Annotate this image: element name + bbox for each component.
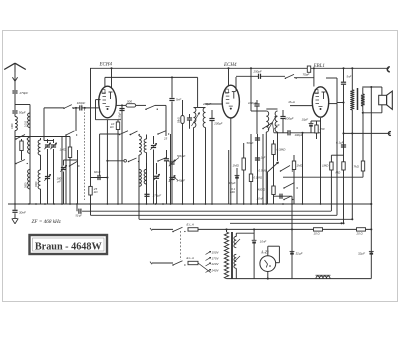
shield box V1 [95, 100, 97, 120]
band switch S1b [15, 163, 17, 165]
svg-text:Braun - 4648W: Braun - 4648W [35, 241, 103, 252]
wire OT primary bottom [351, 110, 353, 219]
svg-text:32µF: 32µF [358, 252, 365, 256]
switch S3c [157, 133, 159, 135]
svg-text:7kΩ: 7kΩ [354, 164, 360, 168]
svg-text:400 Ω: 400 Ω [258, 188, 267, 192]
capacitor 100uF tone [274, 132, 288, 134]
svg-text:100µF: 100µF [295, 133, 303, 137]
transformer secondary HT [234, 236, 236, 247]
transformer primary [224, 232, 228, 279]
svg-text:µF: µF [276, 123, 280, 127]
capacitor 1nF [255, 157, 260, 159]
switch S7b [283, 199, 285, 201]
svg-text:MΩ: MΩ [230, 190, 235, 194]
wire secondary top [235, 233, 237, 236]
svg-text:200pF: 200pF [284, 117, 294, 121]
node [84, 107, 86, 109]
wire V2 top lead [228, 68, 230, 86]
switch link dashed [180, 231, 182, 260]
AVC bus [139, 218, 352, 220]
svg-text:150: 150 [320, 127, 325, 131]
fuse E.L.A 2 [188, 261, 198, 264]
band switch S1c [69, 165, 71, 167]
svg-text:pF: pF [57, 180, 62, 184]
capacitor 5nF [171, 76, 173, 78]
svg-text:100pF: 100pF [119, 112, 122, 119]
svg-text:10nF: 10nF [257, 197, 264, 201]
ground cap 30nF [14, 204, 16, 210]
wire rail audio [302, 133, 304, 204]
heater bus 2 [90, 204, 92, 215]
IF transformer T4 secondary [275, 111, 277, 132]
wire osc feedback [165, 105, 167, 136]
svg-text:0.010: 0.010 [25, 120, 28, 127]
EBL1 cathode [320, 118, 322, 204]
svg-text:100pF: 100pF [248, 101, 257, 105]
band switch S1a [15, 138, 17, 140]
resistor 0.3M [273, 140, 275, 204]
wire heater lead [235, 268, 237, 278]
capacitor 100pF grid [121, 105, 123, 204]
switch tone S5 [262, 128, 264, 130]
osc coil T1a [138, 135, 140, 137]
wire link antenna to L2 [15, 104, 30, 106]
capacitor 10uF cathode [311, 120, 321, 122]
wire top of switch block [15, 136, 70, 138]
resistor 25k [89, 186, 92, 195]
wire rail [228, 150, 230, 204]
wire V2 anode [235, 77, 237, 91]
svg-text:30nF: 30nF [19, 210, 26, 214]
resistor 400 [272, 186, 275, 195]
wire grid line V1 [44, 107, 64, 109]
phono terminal [107, 160, 123, 162]
wire phono terminal line [342, 132, 344, 134]
wire T4 top lead [250, 68, 252, 111]
svg-text:200pF: 200pF [213, 122, 222, 126]
svg-text:10µF: 10µF [302, 117, 309, 121]
resistor 1M feedback a [330, 155, 332, 211]
EBL1 right connection box [336, 78, 338, 104]
svg-text:0.3MΩ: 0.3MΩ [277, 148, 287, 152]
wire rail [291, 196, 293, 204]
wire rail [262, 134, 264, 204]
speaker field coil [316, 276, 330, 279]
voltage taps [206, 251, 211, 254]
tuning arrow T4 [268, 116, 276, 130]
connector output terminal [387, 67, 390, 72]
svg-text:50kpF: 50kpF [177, 154, 186, 158]
volume potentiometer [267, 162, 279, 173]
antenna [4, 63, 15, 69]
svg-text:0000: 0000 [35, 181, 38, 187]
trimmer C11 140pF [154, 175, 159, 177]
svg-text:240V: 240V [211, 269, 220, 273]
resistor 500 oscillator [117, 104, 127, 106]
mains lead L [152, 228, 173, 230]
mains switch S8a [172, 231, 174, 233]
trimmer C7 [53, 139, 55, 143]
svg-text:MΩ: MΩ [336, 171, 341, 175]
svg-text:50nF: 50nF [247, 141, 254, 145]
coil L4 [28, 170, 30, 190]
capacitor 100pF series [79, 105, 81, 110]
resistor 150 cathode [315, 125, 318, 133]
output transformer primary [350, 90, 354, 110]
resistor MOhm feedback b [342, 162, 345, 170]
svg-text:ZF = 468 kHz: ZF = 468 kHz [32, 218, 61, 225]
trimmer C10 [151, 145, 156, 147]
tuning arrow T3 [192, 113, 200, 127]
wire antenna lead [14, 72, 16, 90]
ground earth [12, 219, 15, 224]
svg-text:50 µF: 50 µF [76, 215, 83, 218]
svg-text:250pF: 250pF [253, 69, 262, 73]
switch S6 [280, 170, 282, 172]
svg-text:20 Ω: 20 Ω [356, 231, 364, 235]
wire speaker return [370, 87, 372, 229]
svg-text:150V: 150V [212, 251, 220, 255]
capacitor 175pF [144, 193, 149, 195]
svg-text:220V: 220V [211, 262, 220, 266]
capacitor 50nF [257, 134, 259, 204]
wire OT primary top [351, 68, 353, 90]
capacitor 100pF T4 [254, 103, 259, 105]
svg-text:500: 500 [127, 100, 132, 104]
osc coil T2a [138, 160, 140, 169]
svg-text:ECH4: ECH4 [99, 63, 113, 68]
trimmer padder 1 [169, 161, 174, 163]
capacitor 32uF first [290, 250, 295, 252]
wire input column [29, 105, 31, 205]
IF transformer T4 primary [266, 111, 268, 132]
transformer secondary heater [234, 254, 236, 268]
switch S3d [128, 161, 130, 163]
tube V2 ECH4 [222, 85, 239, 118]
tube V1 ECH4 [99, 86, 117, 118]
resistor 1k [21, 139, 23, 141]
wire far right rail [370, 229, 372, 278]
rectifier feed [253, 228, 255, 230]
rectifier tube A-Z1 [260, 256, 276, 272]
svg-text:10nF: 10nF [260, 240, 267, 244]
switch osc [145, 108, 147, 110]
wire B+ top bus [90, 67, 389, 69]
rectifier anode hook [268, 245, 280, 247]
node [75, 107, 77, 109]
resistor 20 ohm [357, 228, 366, 231]
tube V3 EBL1 [312, 87, 328, 117]
wire g2 [290, 105, 312, 107]
svg-text:50kΩ: 50kΩ [178, 117, 181, 123]
wire AVC return [75, 108, 77, 131]
node [351, 67, 353, 69]
capacitor 33uF [236, 168, 238, 204]
capacitor 60nF AVC [91, 177, 108, 179]
model box Braun 4648W [30, 235, 108, 254]
trimmer C8 180pF [61, 167, 66, 169]
mains switch S8b [172, 264, 174, 266]
switch S2 [63, 108, 65, 110]
svg-text:100pF: 100pF [77, 101, 86, 105]
mains line to PSU [198, 228, 371, 230]
transformer core [231, 232, 233, 279]
resistor grid stopper [307, 66, 310, 72]
svg-text:25: 25 [163, 137, 168, 141]
capacitor 50pF [12, 110, 17, 112]
B+ rail [291, 204, 293, 279]
capacitor 200pF T3 sec [209, 118, 214, 120]
osc coil T2b [146, 163, 148, 169]
IF transformer T3 secondary [203, 108, 205, 128]
IF transformer T3 primary [194, 108, 196, 128]
wire left B+ drop [90, 68, 92, 204]
wire grid to V2 [206, 103, 223, 105]
capacitor 10nF [274, 195, 293, 197]
resistor feedback c [362, 111, 364, 161]
osc coil T1b [146, 135, 148, 140]
svg-text:ECH4: ECH4 [223, 63, 237, 68]
wire V2 cathode [230, 118, 232, 204]
svg-text:175µF: 175µF [153, 194, 162, 198]
mains lead N [152, 262, 173, 264]
svg-text:70pF: 70pF [303, 73, 310, 77]
coupling capacitor 250pF [258, 74, 260, 79]
wire [14, 131, 16, 205]
switch S7 [283, 187, 285, 189]
wire EBL1 grid top [313, 68, 315, 86]
svg-text:175V: 175V [212, 257, 220, 261]
heater bus 1 [76, 204, 78, 211]
switch S3b [130, 134, 132, 136]
bus line [230, 222, 342, 224]
svg-text:10 Ω: 10 Ω [314, 231, 321, 235]
trimmer C7b [45, 176, 50, 178]
svg-text:M+Δ: M+Δ [289, 100, 295, 104]
svg-text:0000: 0000 [25, 182, 28, 188]
coil L2 [28, 113, 30, 128]
svg-text:1MΩ: 1MΩ [233, 164, 240, 168]
speaker [379, 95, 387, 105]
output transformer core [357, 88, 359, 110]
switch S3a [119, 134, 121, 136]
svg-text:32µF: 32µF [296, 252, 303, 256]
rectifier bottom lead [267, 272, 269, 279]
resistor 50k [182, 100, 184, 116]
resistor 0.1M [250, 134, 252, 204]
capacitor 0.1uF tone chain [341, 144, 346, 146]
wire feedback line [283, 176, 363, 178]
voltage selector wire [198, 263, 211, 273]
svg-text:1MΩ: 1MΩ [322, 164, 329, 168]
speaker frame [362, 86, 382, 88]
capacitor 200pF T4 [280, 116, 285, 118]
svg-text:60nF: 60nF [94, 170, 101, 174]
coil antenna L1 [14, 114, 16, 117]
ground bus [8, 203, 371, 205]
trimmer padder 2 [169, 177, 174, 179]
output transformer secondary [361, 94, 365, 106]
resistor 1M b [293, 155, 295, 204]
node [313, 67, 315, 69]
svg-text:0.1MΩ: 0.1MΩ [254, 176, 263, 180]
capacitor 5nF tone [343, 68, 345, 82]
resistor 10 ohm [314, 228, 323, 231]
svg-text:E.L.A: E.L.A [187, 256, 194, 260]
wire rail [170, 134, 172, 204]
capacitor [164, 158, 169, 160]
wire screen drop [197, 77, 199, 107]
coil L3 [28, 137, 30, 154]
trimmer C6 [47, 139, 49, 143]
switch S4 [285, 77, 287, 79]
wire cathode rail V1 [106, 120, 108, 205]
svg-text:5nF: 5nF [347, 75, 352, 79]
capacitor 10nF rectifier [252, 239, 257, 241]
coil L5 [40, 138, 42, 140]
svg-text:E.L.A: E.L.A [187, 223, 194, 227]
node [342, 67, 344, 69]
fuse E.L.A 1 [188, 228, 198, 231]
cathode resistor 10k [117, 120, 119, 204]
svg-text:33µF: 33µF [229, 181, 236, 185]
svg-text:270pF: 270pF [19, 91, 29, 95]
svg-text:50pF: 50pF [19, 111, 26, 115]
svg-text:5nF: 5nF [176, 98, 181, 102]
wire switch row 1 [100, 133, 120, 135]
capacitor 270pF [12, 90, 17, 92]
tuning gang link dashed [84, 109, 86, 200]
svg-text:1000: 1000 [11, 123, 14, 129]
wire anode lead V1 [111, 68, 113, 88]
resistor 1M a [243, 143, 245, 204]
capacitor 32uF second [369, 250, 374, 252]
wire screen lead V1 [105, 76, 198, 78]
